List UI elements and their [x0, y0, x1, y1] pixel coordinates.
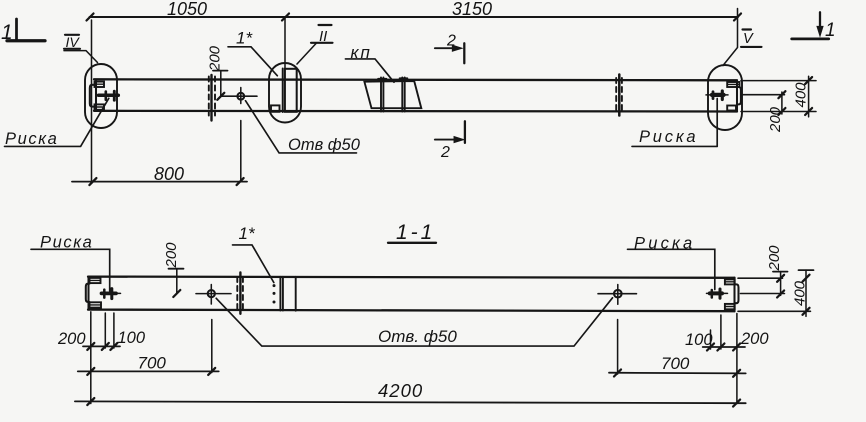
- leader to Otv f50 label (top view): [246, 101, 357, 153]
- svg-text:1*: 1*: [239, 224, 256, 243]
- svg-text:V: V: [743, 31, 754, 47]
- label Riska left (top view) with leader: [5, 98, 109, 148]
- section marker 2 bottom: [435, 121, 465, 161]
- extension from hole 1 down: [211, 320, 213, 373]
- right side extension lines (bottom view): [738, 277, 783, 279]
- column left end line: [95, 80, 97, 111]
- svg-text:Отв. ф50: Отв. ф50: [378, 327, 457, 346]
- plate single line (bottom view): [295, 277, 297, 311]
- svg-text:Риска: Риска: [5, 130, 58, 148]
- left end top flange: [95, 82, 105, 87]
- svg-text:800: 800: [154, 164, 184, 184]
- right end channel bulge: [737, 87, 741, 104]
- riska mark right (bottom view): [707, 289, 728, 298]
- detail balloon IV (left end): [85, 64, 117, 128]
- kp verticals: [378, 78, 408, 112]
- svg-text:400: 400: [792, 280, 809, 306]
- left end bottom flange (bottom view): [90, 302, 102, 307]
- splice dashed lines (bottom view x=240): [237, 273, 243, 314]
- label 1* (top view) with leader: [228, 29, 277, 76]
- svg-text:IV: IV: [66, 34, 81, 50]
- column body bottom view : top edge: [88, 277, 735, 278]
- svg-text:Риска: Риска: [639, 128, 698, 146]
- hole 2 (bottom view): [598, 285, 637, 305]
- dimension 4200: [75, 380, 746, 407]
- svg-text:200: 200: [767, 106, 784, 133]
- extension from hole 2 down: [617, 320, 619, 375]
- svg-text:4200: 4200: [378, 380, 423, 401]
- splice dashed lines right (x=619): [616, 75, 622, 116]
- dimension 400 right (top view): [793, 76, 813, 117]
- bottom dims: extension lines right: [710, 330, 712, 349]
- section marker 1 right: [792, 12, 836, 41]
- extension line at plate (1050 mark): [284, 17, 286, 69]
- title 1-1: [388, 221, 436, 244]
- dimension 200 right (bottom view): [766, 245, 788, 298]
- detail balloon II (plate): [269, 63, 301, 123]
- left end bottom flange: [95, 104, 105, 109]
- splice dashed lines left (x=211): [209, 75, 215, 121]
- riska mark left (top view): [99, 91, 119, 100]
- extension from hole down to 800 dim: [240, 121, 242, 182]
- svg-text:700: 700: [661, 354, 690, 373]
- left end channel bulge (bottom view): [86, 284, 90, 302]
- svg-text:1: 1: [825, 20, 836, 41]
- label Riska right (bottom view): [628, 235, 715, 290]
- svg-text:1-1: 1-1: [396, 221, 435, 244]
- weld dots (bottom view): [273, 284, 276, 303]
- dimension 400 right (bottom view): [792, 270, 814, 316]
- svg-text:Отв ф50: Отв ф50: [288, 136, 361, 154]
- label Riska right (top view): [632, 128, 717, 146]
- svg-text:100: 100: [118, 329, 146, 347]
- plate edge line in balloon II: [282, 69, 284, 113]
- dimension 200/100 left (bottom view): [57, 329, 146, 350]
- column right end line (bottom view): [733, 278, 735, 312]
- hole Otv f50 (top view): [221, 88, 257, 104]
- column right end line: [736, 81, 738, 112]
- svg-text:400: 400: [793, 82, 810, 108]
- riska mark right (top view): [706, 91, 728, 100]
- svg-text:200: 200: [57, 330, 86, 348]
- svg-text:200: 200: [163, 242, 180, 269]
- plate rectangle in balloon II: [285, 69, 297, 112]
- svg-text:1*: 1*: [236, 29, 253, 48]
- svg-text:700: 700: [138, 354, 167, 373]
- leader from riska right down to label: [716, 99, 718, 147]
- column body top view : top edge: [94, 79, 737, 80]
- left end channel bulge: [90, 85, 95, 107]
- dimension 800: [72, 164, 247, 185]
- label kp with leader: [345, 43, 394, 82]
- dimension 200 vertical (top view, to hole): [207, 45, 228, 99]
- plate double lines (bottom view): [279, 277, 281, 311]
- right end top flange: [727, 82, 739, 87]
- dimension 100/200 right (bottom view): [685, 330, 769, 351]
- dimension 200 right (top view): [767, 91, 785, 133]
- label Riska left (bottom view): [31, 234, 110, 292]
- column body top view : bottom edge: [94, 110, 737, 113]
- svg-text:100: 100: [685, 331, 713, 349]
- section marker 1 top-left: [1, 19, 45, 44]
- svg-text:3150: 3150: [452, 0, 492, 19]
- column body bottom view : bottom edge: [88, 310, 735, 312]
- kp plate detail (parallelogram): [364, 81, 421, 108]
- bottom dims: extension lines left: [90, 312, 92, 404]
- column left end line (bottom view): [87, 277, 89, 310]
- leader Otv f50 (bottom view, joins both holes): [216, 298, 612, 346]
- label II with leader: [297, 25, 333, 64]
- section marker 2 top: [435, 33, 464, 64]
- right end top flange (bottom view): [725, 279, 735, 284]
- small square lower-left in balloon II: [271, 105, 280, 111]
- svg-text:200: 200: [740, 330, 769, 348]
- right end channel bulge (bottom view): [735, 284, 739, 303]
- riska mark left (bottom view): [101, 289, 121, 299]
- svg-text:200: 200: [766, 245, 783, 272]
- left end top flange (bottom view): [90, 278, 101, 283]
- svg-text:2: 2: [440, 144, 450, 161]
- dimension 700 left: [78, 354, 219, 375]
- label 1* (bottom view) with leader: [233, 224, 274, 283]
- right side extension lines (top view): [741, 80, 816, 82]
- svg-text:200: 200: [207, 45, 224, 72]
- extension line right end + leader to balloon V: [723, 9, 738, 66]
- label V with leader: [741, 30, 762, 48]
- label IV with leader: [64, 34, 98, 63]
- dimension 200 vertical (bottom view left): [163, 242, 184, 297]
- hole 1 (bottom view): [196, 285, 231, 305]
- detail balloon V (right end): [708, 65, 742, 130]
- dimension line 1050 / 3150: [87, 0, 742, 21]
- svg-text:1050: 1050: [167, 0, 207, 19]
- right end bottom flange: [727, 106, 736, 111]
- right end bottom flange (bottom view): [725, 304, 735, 309]
- extension line left end: [91, 20, 93, 182]
- dimension 700 right: [609, 354, 746, 377]
